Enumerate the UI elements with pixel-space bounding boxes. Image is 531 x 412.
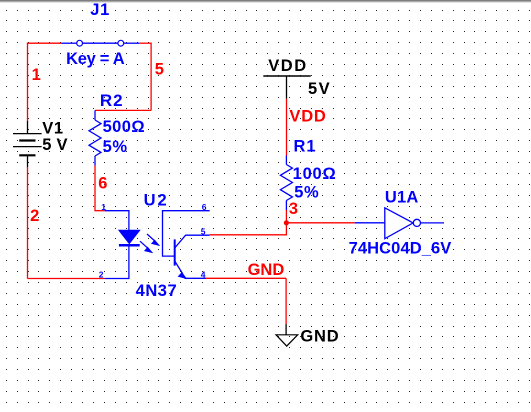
inverter U1A bubble: [413, 219, 420, 226]
wire net5 to R2 top: [95, 109, 151, 111]
svg-text:5: 5: [201, 226, 206, 236]
svg-text:U1A: U1A: [385, 189, 419, 207]
svg-text:5 V: 5 V: [42, 136, 68, 154]
svg-text:3: 3: [289, 200, 298, 218]
svg-text:500Ω: 500Ω: [103, 118, 145, 136]
wire net3 down jog to U2 pin5: [210, 223, 287, 235]
wire net1 top-left horizontal: [28, 42, 62, 44]
svg-text:2: 2: [30, 207, 39, 225]
svg-text:4N37: 4N37: [136, 282, 178, 300]
optocoupler U2 LED cathode bar: [119, 244, 140, 247]
inverter U1A input lead: [355, 222, 385, 224]
svg-text:VDD: VDD: [268, 57, 307, 75]
junction node 3 dot: [284, 220, 289, 225]
svg-text:100Ω: 100Ω: [293, 165, 337, 183]
svg-text:74HC04D_6V: 74HC04D_6V: [349, 240, 452, 258]
svg-text:6: 6: [202, 202, 207, 212]
optocoupler U2 transistor base bar: [174, 239, 176, 265]
resistor R1: [280, 156, 292, 211]
resistor R2: [89, 110, 101, 165]
wire GND net vertical down: [285, 278, 287, 324]
svg-text:J1: J1: [90, 1, 110, 19]
wire net6 to U2 pin1: [94, 210, 104, 212]
battery V1: [27, 121, 29, 167]
svg-text:1: 1: [32, 66, 41, 84]
ground symbol: [276, 324, 298, 346]
wire GND net from U2 pin4: [206, 277, 286, 279]
wire net1 left vertical to battery: [27, 43, 29, 121]
svg-text:VDD: VDD: [289, 108, 326, 126]
svg-text:2: 2: [99, 270, 104, 280]
wire net2 to U2 pin2: [28, 278, 105, 280]
optocoupler U2 collector lead pin5: [175, 235, 210, 248]
svg-text:4: 4: [201, 269, 206, 279]
svg-text:Key = A: Key = A: [66, 50, 125, 68]
svg-text:V1: V1: [42, 119, 64, 137]
wire VDD net vertical: [286, 99, 288, 156]
svg-text:5V: 5V: [308, 80, 331, 98]
top window border bar: [0, 0, 531, 1]
wire net3 R1 bottom: [285, 210, 287, 223]
svg-text:5%: 5%: [103, 138, 128, 156]
svg-text:5: 5: [155, 61, 164, 79]
optocoupler U2 LED triangle: [119, 230, 140, 243]
optocoupler U2 base/collector frame: [163, 211, 210, 256]
svg-text:6: 6: [98, 174, 107, 192]
optocoupler U2 LED anode lead: [105, 211, 129, 230]
optocoupler U2 LED cathode lead: [105, 247, 129, 279]
svg-text:GND: GND: [300, 328, 339, 346]
optocoupler U2 emission arrow 2: [140, 241, 152, 253]
wire net2 battery bottom vertical: [27, 167, 29, 279]
svg-text:5%: 5%: [294, 183, 319, 201]
svg-text:1: 1: [101, 202, 106, 212]
switch J1 left contact circle: [77, 40, 83, 46]
wire net3 to inverter: [286, 222, 354, 224]
switch J1 right contact circle: [118, 40, 124, 46]
battery V1 short plate bottom: [19, 154, 35, 156]
svg-text:GND: GND: [248, 261, 285, 279]
battery V1 long plate 2: [13, 146, 42, 148]
inverter U1A triangle: [385, 208, 413, 239]
svg-text:R1: R1: [294, 137, 317, 155]
battery V1 short plate 1: [19, 139, 35, 141]
wire net5 top-right horizontal: [139, 42, 151, 44]
wire net6 R2 bottom vertical: [94, 166, 96, 211]
svg-text:U2: U2: [144, 192, 169, 210]
wire net5 right vertical: [150, 43, 152, 111]
optocoupler U2 emitter lead with arrow: [175, 261, 206, 279]
inverter U1A output lead: [420, 222, 444, 224]
svg-text:R2: R2: [100, 91, 124, 110]
battery V1 long plate top: [13, 133, 42, 135]
VDD power symbol: [263, 76, 310, 99]
switch J1: [61, 42, 139, 44]
optocoupler U2 emission arrow 1: [147, 234, 159, 246]
